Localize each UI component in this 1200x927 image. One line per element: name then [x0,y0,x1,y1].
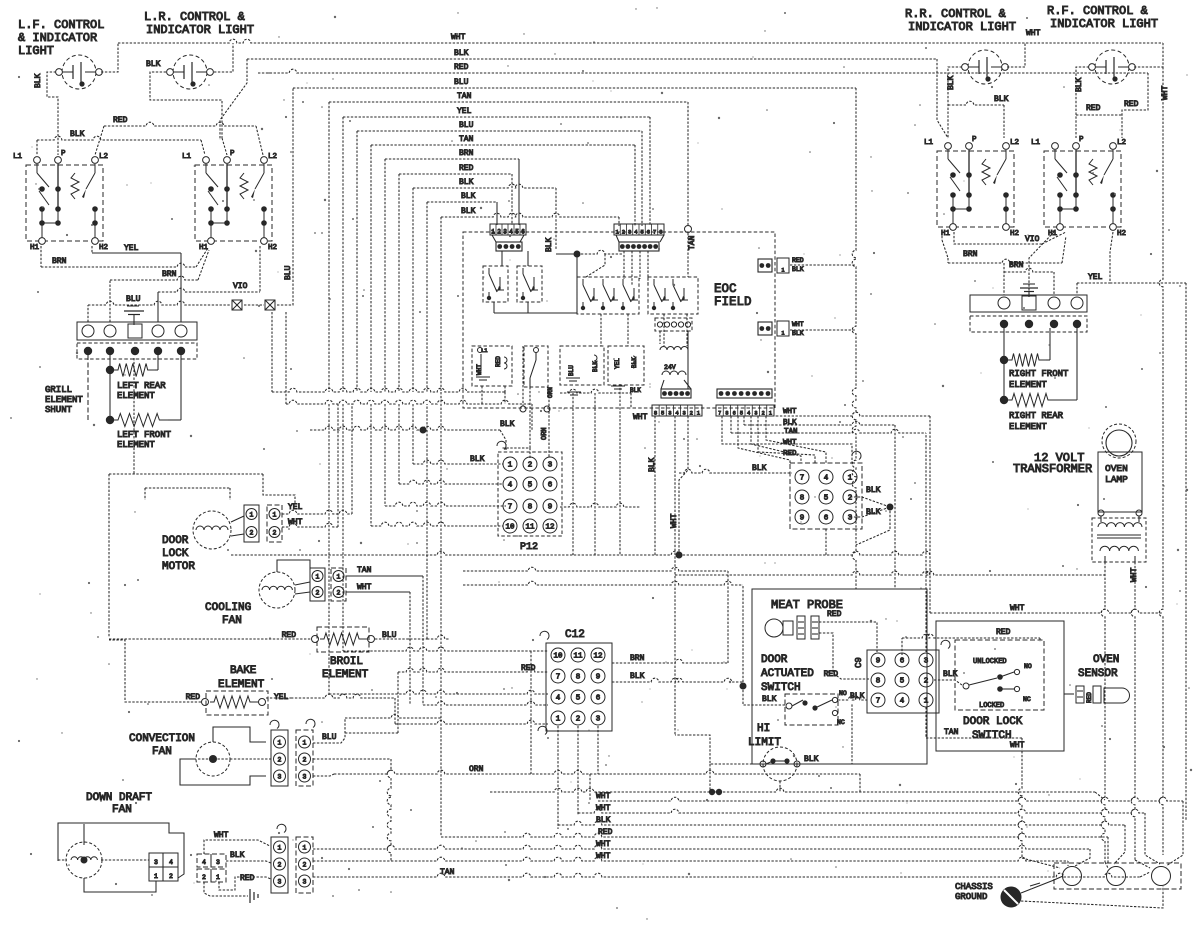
svg-text:R.R. CONTROL &: R.R. CONTROL & [905,7,1006,21]
down draft fan M4 [58,823,184,892]
svg-text:VIO: VIO [233,282,248,291]
svg-text:RED: RED [1124,100,1139,109]
wire BLK to P12 pin row 1 [413,404,503,464]
relay module RL4 [608,346,644,394]
svg-text:ELEMENT: ELEMENT [218,679,265,691]
svg-text:YEL: YEL [614,358,621,369]
svg-text:3: 3 [278,774,282,781]
svg-text:CHASSIS: CHASSIS [955,882,993,892]
svg-text:BLK: BLK [762,695,777,704]
indicator lamp DS2 (L.R.) [167,55,214,89]
wire route door lock motor loop [109,474,295,637]
wire RED bus 2 [399,164,512,392]
svg-text:2: 2 [690,410,693,417]
svg-text:7: 7 [718,411,721,417]
svg-text:BRN: BRN [459,149,474,158]
svg-text:6: 6 [900,658,905,666]
svg-text:BLU: BLU [454,78,469,87]
wire RED bus drop to R.F. [1076,73,1148,138]
wire P12 pin2 latch wire [502,448,530,458]
wire from L.R. lamp right terminal up to WHT bus [214,43,233,72]
svg-text:BLK: BLK [459,178,474,187]
indicator lamp DS1 (L.F.) [56,55,103,89]
svg-text:BLU: BLU [126,295,141,304]
svg-text:8: 8 [800,495,805,503]
wire ORN from convection fan pin3 [313,765,860,792]
infinite switch S1 (L.F.) [13,150,108,252]
svg-text:4: 4 [900,698,905,706]
svg-text:WHT: WHT [783,439,797,447]
svg-text:NC: NC [1023,696,1031,703]
svg-text:YEL: YEL [124,244,139,253]
svg-text:BLK: BLK [994,95,1009,104]
svg-text:WHT: WHT [596,792,611,801]
svg-text:BLU: BLU [284,265,293,280]
wire BRN 2 to terminal 2 [110,250,209,322]
wire RED 2 from meat probe to C9 pin 8 [819,633,869,679]
svg-text:BROIL: BROIL [330,656,363,668]
relay bank KA contacts [577,277,639,314]
svg-text:WHT: WHT [596,852,611,861]
svg-text:RED: RED [459,164,474,173]
connector P12 [497,441,562,553]
door lock switch S7 [955,640,1044,710]
wires relay bank to lower modules [601,314,687,346]
terminal block TB1 upper row [77,322,197,340]
svg-text:WHT: WHT [288,518,303,527]
svg-text:BLK: BLK [500,420,515,429]
infinite switch S3 (R.R.) [924,136,1019,238]
svg-text:1: 1 [216,874,220,881]
wire BLK bus 2 [413,178,556,392]
caption door actuated switch [761,654,814,694]
wire BLK down to door actuated switch [743,686,786,705]
svg-text:L.F. CONTROL: L.F. CONTROL [18,18,104,32]
oven sensor probe symbol [1064,686,1130,703]
connector pair down draft outputs [271,824,313,893]
svg-text:7: 7 [876,698,881,706]
svg-text:WHT: WHT [792,321,804,328]
svg-text:6: 6 [521,229,525,236]
wire BLK from C12 [463,581,747,689]
svg-text:3: 3 [216,859,220,866]
svg-text:3: 3 [548,462,553,470]
capacitor/filter symbol BLU at left terminal block [124,295,144,325]
svg-text:4: 4 [202,859,206,866]
ground chassis at down draft fan [204,882,258,903]
svg-text:9: 9 [800,515,805,523]
caption R.R. control and indicator light [905,7,1016,34]
connector J4 dark block [717,389,772,398]
relay module RL2 [524,346,548,387]
indicator lamp DS3 (R.R.) [962,50,1009,84]
wire BLK from C8 pin 3 [850,507,890,545]
svg-text:NC: NC [837,719,845,726]
svg-text:8: 8 [876,678,881,686]
svg-text:3: 3 [596,716,601,724]
wire WHT from door lock motor connector [282,404,338,527]
svg-text:1: 1 [924,698,929,706]
connector pair door lock motor [244,505,282,542]
cooling fan M2 [205,560,310,627]
svg-text:4: 4 [824,475,829,483]
svg-text:BLK: BLK [630,672,645,681]
relay bank KB contacts [648,277,698,314]
connector J4 strip [716,405,774,417]
wire BLU with inline connectors to terminal 1 [88,88,293,322]
wire WHT drop from J3 [670,416,679,735]
svg-text:2: 2 [848,495,853,503]
svg-text:H2: H2 [99,244,108,252]
svg-text:LAMP: LAMP [1105,474,1128,485]
wire RED to C12 row B [398,664,548,673]
wire ground run with junction dots [490,764,1105,800]
svg-text:5: 5 [661,410,664,417]
svg-text:YEL: YEL [288,503,303,512]
transformer T1 12V [1092,516,1146,582]
svg-text:WHT: WHT [783,408,797,416]
wire ORN from RL3 to P12 pin3 [541,388,549,457]
wire BLK from door switch to C9 [838,692,867,701]
svg-text:4: 4 [509,229,513,236]
svg-text:BLU: BLU [568,365,575,376]
svg-text:2: 2 [924,678,929,686]
svg-text:2: 2 [169,873,173,880]
wire BLK drop from J3 [648,416,657,555]
svg-text:ELEMENT: ELEMENT [45,395,83,405]
wire WHT bottom bus 1 [596,792,1183,866]
svg-text:RED: RED [996,628,1011,637]
wire BLK jumper R.R. [948,95,1009,138]
svg-text:HI: HI [757,723,770,735]
relay K1 contacts [483,251,508,313]
capacitor/filter symbol at right terminal block [1020,284,1038,297]
wire WHT bottom bus 3 [313,840,1090,866]
wire door lock drop to terminal [1018,751,1060,868]
svg-text:YEL: YEL [1088,273,1103,282]
svg-text:MOTOR: MOTOR [162,561,195,573]
wire WHT bottom bus 4 [313,852,1068,866]
svg-text:ELEMENT: ELEMENT [117,440,155,450]
relay module RL1 [472,346,512,386]
terminal block TB2 lower row (dots) [970,316,1087,332]
svg-text:BLK: BLK [804,755,819,764]
hi-limit thermostat S6 [760,747,819,781]
svg-text:12: 12 [593,653,602,661]
svg-text:RED: RED [495,356,502,367]
wire from square terminal down to motor loop [133,358,135,474]
svg-text:FAN: FAN [152,746,172,758]
wire to C12 row A [343,404,548,651]
svg-text:1: 1 [781,268,784,274]
terminal block TB1 lower row (dots) [77,343,197,359]
svg-text:1: 1 [273,512,277,519]
wire WHT down draft [204,831,270,854]
svg-text:6: 6 [647,229,650,236]
wire BLK from L.F. lamp left terminal [34,72,58,155]
svg-text:BLU: BLU [459,121,474,130]
wire BLK to P12 junction [310,420,515,450]
svg-text:3: 3 [924,658,929,666]
connector C12 [540,629,612,731]
resistor right rear element [1000,328,1077,432]
wire TAN into EOC [685,226,698,278]
wire BLU broil to bundle [426,404,428,639]
svg-text:P: P [1079,136,1084,144]
wire YEL from bake element [266,694,548,724]
resistor bake element [186,665,289,715]
svg-text:BLK: BLK [70,130,85,139]
infinite switch S2 (L.R.) [182,150,277,252]
svg-text:9: 9 [876,658,881,666]
connector C8 [790,451,862,529]
wire BLK from R.R. lamp left terminal [947,67,962,138]
svg-text:VIO: VIO [1025,235,1040,244]
svg-text:2: 2 [278,757,282,764]
svg-text:3: 3 [628,229,631,236]
connector grid down draft fan B [197,854,226,882]
connector pair cooling fan [310,568,346,601]
svg-text:FIELD: FIELD [714,295,752,309]
svg-text:TAN: TAN [784,428,798,436]
wire transformer secondary to EOC area [675,571,1105,575]
svg-text:WHT: WHT [1010,741,1025,750]
wire BLK into connector C8 [679,464,792,473]
wire BLK bottom bus [558,816,1125,864]
svg-text:ORN: ORN [469,765,484,774]
wire BLK from C9 to door lock switch [934,670,962,685]
svg-text:BAKE: BAKE [230,665,257,677]
svg-text:WHT: WHT [596,840,611,849]
svg-text:WHT: WHT [357,583,372,592]
caption door lock switch [963,716,1023,742]
connector J3 dark block [661,380,691,398]
wire BRN from R.R. H1 [942,232,1066,295]
svg-text:RED: RED [1086,692,1093,703]
svg-text:LEFT REAR: LEFT REAR [117,381,166,391]
svg-text:L1: L1 [182,153,192,161]
svg-text:RED: RED [454,63,469,72]
svg-text:12: 12 [545,524,554,532]
resistor broil element [109,627,449,681]
svg-text:4: 4 [508,482,513,490]
meat probe jack symbol [765,616,819,639]
wire BRN from C12 [463,567,728,663]
grill element shunt [45,355,88,420]
svg-text:BLK: BLK [947,75,956,90]
svg-text:ORN: ORN [541,427,549,440]
svg-text:INDICATOR LIGHT: INDICATOR LIGHT [908,20,1016,34]
wire feeder beside C12 to ORN junction [530,651,532,774]
svg-text:BLK: BLK [1075,77,1084,92]
svg-text:2: 2 [316,590,320,597]
svg-text:1: 1 [154,873,158,880]
svg-text:3: 3 [682,410,685,417]
transformer module inside EOC [655,318,692,389]
svg-text:RED: RED [824,670,839,679]
connector pair convection fan [270,719,315,786]
svg-text:2: 2 [278,862,282,869]
svg-text:GROUND: GROUND [955,892,987,902]
svg-text:1: 1 [303,740,307,747]
wire transformer secondary drops [1101,562,1150,868]
svg-text:1: 1 [250,512,254,519]
svg-text:5: 5 [576,695,581,703]
wire WHT from L.F. lamp right terminal to WHT bus [101,43,118,72]
infinite switch S4 (R.F.) [1031,136,1126,238]
svg-text:8: 8 [725,411,728,417]
svg-text:11: 11 [525,524,535,532]
svg-text:8: 8 [528,504,533,512]
svg-text:ACTUATED: ACTUATED [761,668,814,680]
svg-text:RED: RED [186,693,201,702]
svg-text:H1: H1 [30,244,40,252]
wire BLK from C8 pin 2 [850,486,894,511]
svg-text:L1: L1 [481,347,488,354]
svg-text:BLK: BLK [792,330,804,337]
connector J1 mating dark block [492,235,524,251]
wire RED from meat probe [819,610,877,652]
svg-text:1: 1 [278,845,282,852]
edge connector E1 on EOC right edge [758,257,856,274]
svg-text:& INDICATOR: & INDICATOR [18,31,97,45]
svg-text:FAN: FAN [112,804,132,816]
chassis ground screw symbol [1001,876,1063,907]
svg-text:SWITCH: SWITCH [972,730,1012,742]
svg-text:L2: L2 [268,153,277,161]
caption HI LIMIT [748,723,781,749]
caption L.R. control and indicator light [144,10,254,37]
caption R.F. control and indicator light [1047,4,1158,31]
svg-text:1: 1 [781,331,784,337]
svg-text:6: 6 [596,695,601,703]
svg-text:1: 1 [491,229,495,236]
wire BLK from R.F. lamp left terminal [1075,67,1089,138]
svg-text:7: 7 [800,475,805,483]
svg-text:2: 2 [622,229,625,236]
svg-text:BLK: BLK [470,455,485,464]
caption convection fan [129,733,195,758]
wires RL1 RL2 to P12 feeds [482,386,530,448]
svg-text:DOOR LOCK: DOOR LOCK [963,716,1023,728]
svg-text:BRN: BRN [1009,261,1024,270]
wire YEL from door lock motor connector [282,404,352,514]
svg-text:8: 8 [659,229,662,236]
terminal block main power [1054,863,1181,889]
svg-text:YEL: YEL [457,107,472,116]
wire vertical at RL2 left [520,346,550,412]
svg-text:TAN: TAN [944,728,959,737]
svg-text:BRN: BRN [162,270,177,279]
wire C8 pin drop [825,529,827,556]
svg-text:TAN: TAN [440,868,455,877]
svg-text:BLK: BLK [461,207,476,216]
caption meat probe [771,598,843,612]
svg-text:BLK: BLK [866,486,881,495]
svg-text:LOCK: LOCK [162,548,189,560]
svg-text:H1: H1 [199,244,209,252]
svg-text:BLK: BLK [596,816,611,825]
resistor left front element [106,355,181,450]
wire drop from J3 third [679,416,688,555]
svg-text:7: 7 [556,674,561,682]
wire BLK bus 4 [441,207,619,392]
wire BLK from L.R. lamp left terminal [146,60,227,155]
svg-text:CONVECTION: CONVECTION [129,733,195,745]
svg-text:11: 11 [573,653,583,661]
svg-text:TAN: TAN [688,235,697,250]
svg-text:9: 9 [596,674,601,682]
svg-text:3: 3 [503,229,507,236]
svg-text:SENSOR: SENSOR [1078,668,1118,680]
wire P12 row3 to right [560,503,640,507]
svg-text:WHT: WHT [451,33,466,42]
svg-text:BLK: BLK [648,457,657,472]
svg-text:WHT: WHT [596,804,611,813]
svg-text:5: 5 [900,678,905,686]
wire WHT label below EOC [231,413,930,559]
svg-text:BLK: BLK [461,192,476,201]
svg-text:ELEMENT: ELEMENT [117,391,155,401]
svg-text:BLK: BLK [454,49,469,58]
wire BLK down draft [226,851,271,863]
svg-text:P: P [61,150,66,158]
svg-text:L.R. CONTROL &: L.R. CONTROL & [144,10,245,24]
svg-text:OVEN: OVEN [1105,463,1128,474]
wire to P12 pin row 4 [371,404,503,526]
svg-text:7: 7 [508,504,513,512]
svg-text:P: P [230,150,235,158]
svg-text:8: 8 [576,674,581,682]
wire crossover row 1 [272,312,505,404]
wire WHT to door lock area [930,604,1163,613]
svg-text:3: 3 [303,774,307,781]
wires J4 to connector C8 and right [722,408,930,613]
svg-text:10: 10 [553,653,563,661]
svg-text:WHT: WHT [476,364,483,375]
svg-text:2: 2 [576,716,581,724]
svg-text:BLK: BLK [34,73,43,88]
svg-text:5: 5 [740,411,743,417]
indicator lamp DS4 (R.F.) [1089,50,1136,84]
svg-text:5: 5 [515,229,519,236]
svg-text:WHT: WHT [1161,85,1170,100]
svg-text:LOCKED: LOCKED [979,702,1004,710]
svg-text:L2: L2 [1010,139,1019,147]
svg-text:NO: NO [1024,663,1032,670]
svg-text:3: 3 [848,515,853,523]
svg-text:H2: H2 [1117,230,1126,238]
svg-text:SWITCH: SWITCH [761,682,801,694]
connector J2 strip [614,224,664,236]
wire RED down draft [219,874,271,890]
svg-text:5: 5 [824,495,829,503]
svg-text:1: 1 [556,716,561,724]
wire TAN bus 2 [371,135,635,392]
wire RED from C9 pin 6 to door lock area [902,628,1040,655]
svg-text:3: 3 [303,879,307,886]
wire WHT bus [118,33,1163,43]
wire YEL bus [343,107,650,392]
svg-text:EOC: EOC [714,282,737,296]
svg-text:WHT: WHT [1010,604,1025,613]
svg-text:BRN: BRN [52,257,67,266]
wire from convection fan pin2 [313,759,391,861]
connector grid down draft fan A [149,853,178,881]
wire RED bottom bus [441,392,1108,864]
svg-text:BLU: BLU [322,733,337,742]
wire VIO from L.R. switch H2 [158,246,260,322]
